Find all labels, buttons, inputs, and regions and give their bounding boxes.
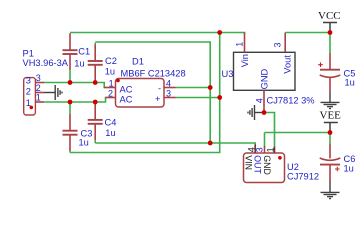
node D1.4 / x210 junction: [208, 85, 213, 90]
P1 pin 1 stub: [35, 101, 44, 103]
U2 pin 1 stub: [274, 147, 276, 154]
svg-text:1: 1: [109, 79, 114, 89]
svg-text:CJ7812 3%: CJ7812 3%: [267, 96, 315, 106]
svg-text:C4: C4: [105, 118, 117, 128]
svg-text:C1: C1: [78, 47, 90, 57]
svg-text:1u: 1u: [79, 138, 89, 148]
wire AC1 row P1.3 to D1.1: [44, 83, 106, 88]
node +raw / x220 junction: [217, 30, 222, 35]
svg-text:4: 4: [166, 78, 171, 88]
svg-text:OUT: OUT: [253, 155, 263, 174]
node U3 GND junction: [262, 110, 267, 115]
node VEE junction: [328, 130, 333, 135]
svg-text:U3: U3: [222, 69, 234, 79]
node C2/AC1 junction: [93, 80, 98, 85]
svg-text:C6: C6: [344, 154, 356, 164]
node D1.3 / x220 junction: [217, 95, 222, 100]
ground below C6: [321, 181, 340, 199]
svg-text:U2: U2: [287, 162, 299, 172]
power flag VCC: [318, 10, 341, 33]
P1 pin 3 stub: [35, 82, 44, 84]
ground below C5: [321, 92, 340, 109]
svg-text:CJ7912: CJ7912: [287, 172, 319, 182]
capacitor C2: [88, 43, 103, 83]
capacitor C4: [88, 102, 103, 143]
svg-text:GND: GND: [260, 68, 270, 89]
svg-text:3: 3: [273, 42, 283, 47]
svg-text:Vout: Vout: [282, 55, 292, 74]
D1 pin 3 stub: [164, 97, 176, 99]
U3 pin 1 stub: [244, 33, 246, 53]
svg-text:1u: 1u: [105, 128, 115, 138]
node C1/AC1 junction: [68, 80, 73, 85]
U3 pin 3 stub: [284, 33, 286, 53]
wire D1.4 to x210: [176, 87, 211, 89]
capacitor C6: [320, 133, 341, 182]
wire U2 OUT to VEE: [265, 132, 331, 134]
U2 pin 1 indicator dot: [278, 156, 282, 160]
node C4/AC2 junction: [93, 100, 98, 105]
svg-text:4: 4: [254, 98, 264, 103]
svg-text:1: 1: [234, 42, 244, 47]
svg-text:2: 2: [36, 83, 41, 93]
regulator U2: [244, 153, 285, 183]
P1 pin 1 indicator dot: [30, 106, 34, 110]
svg-text:AC: AC: [120, 84, 133, 94]
svg-text:-: -: [158, 84, 161, 94]
wire D1.3 to x220: [176, 97, 220, 99]
svg-text:1u: 1u: [105, 66, 115, 76]
svg-text:MB6F C213428: MB6F C213428: [121, 68, 186, 78]
capacitor C5: [318, 33, 340, 93]
svg-text:3: 3: [26, 76, 31, 86]
node C3/AC2 junction: [68, 100, 73, 105]
svg-text:VIN: VIN: [243, 155, 253, 170]
regulator U3: [234, 52, 296, 90]
svg-text:Vin: Vin: [240, 54, 250, 67]
capacitor C1: [63, 33, 78, 82]
D1 pin 4 stub: [164, 87, 176, 89]
svg-text:3: 3: [166, 88, 171, 98]
svg-text:GND: GND: [262, 155, 272, 175]
svg-text:AC: AC: [120, 94, 133, 104]
node -raw wire / x210 junction: [208, 141, 213, 146]
P1 pin 2 stub: [35, 92, 44, 94]
svg-text:1u: 1u: [74, 58, 84, 68]
wire -raw horizontal to U2 VIN: [95, 143, 255, 147]
wire U2 OUT vertical: [264, 133, 266, 148]
wire vertical x220 +raw: [70, 33, 220, 153]
bridge rectifier D1: [116, 79, 165, 108]
svg-text:VEE: VEE: [320, 109, 342, 121]
capacitor C3: [63, 102, 78, 153]
wire U3 GND to U2 GND: [264, 113, 275, 147]
ground at P1 pin 2: [44, 85, 62, 100]
svg-text:1: 1: [266, 147, 276, 152]
svg-text:C2: C2: [105, 56, 117, 66]
svg-text:P1: P1: [23, 49, 34, 59]
wire top +raw rail to U3 Vin: [70, 33, 245, 35]
D1 pin 2 stub: [106, 97, 116, 99]
connector P1: [24, 78, 36, 115]
U2 pin 3 stub: [264, 146, 266, 153]
svg-text:1: 1: [36, 93, 41, 103]
svg-text:3: 3: [255, 147, 265, 152]
svg-text:VCC: VCC: [318, 10, 341, 22]
svg-text:2: 2: [26, 87, 31, 97]
svg-text:+: +: [155, 94, 160, 104]
U3 pin 4 stub: [263, 90, 265, 112]
wire AC2 row P1.1 to D1.2: [44, 98, 107, 103]
svg-text:D1: D1: [132, 57, 144, 67]
power flag VEE: [320, 109, 342, 132]
wire vertical x210 -raw: [209, 42, 211, 143]
svg-text:1u: 1u: [345, 78, 355, 88]
D1 pin 1 indicator dot: [116, 79, 120, 83]
ground at U3 GND: [248, 105, 264, 120]
wire C2 top rail: [95, 42, 210, 44]
svg-text:3: 3: [36, 73, 41, 83]
D1 pin 1 stub: [104, 87, 115, 89]
U2 pin 4 stub: [254, 145, 256, 154]
svg-text:1u: 1u: [344, 164, 354, 174]
svg-text:VH3.96-3A: VH3.96-3A: [23, 58, 69, 68]
wire U3 Vout to VCC: [285, 32, 330, 34]
node VCC junction: [328, 30, 333, 35]
svg-text:2: 2: [108, 89, 113, 99]
